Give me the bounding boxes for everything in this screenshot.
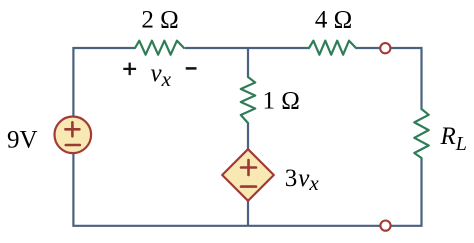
wire top-left corner: [73, 48, 135, 116]
wire 4ohm to terminal a: [356, 47, 380, 49]
label plus of vx: [123, 63, 136, 76]
wire bottom-right corner: [391, 158, 422, 226]
svg-text:4 Ω: 4 Ω: [315, 7, 352, 34]
dependent source 3vx diamond: [222, 149, 274, 201]
wire 1ohm to diamond: [247, 123, 249, 150]
wire top-middle segment: [185, 47, 309, 49]
svg-text:vx: vx: [151, 60, 172, 91]
voltage source VS 9V circle: [55, 117, 92, 154]
resistor R=2ohm zigzag: [135, 41, 184, 55]
voltage source plus sign: [65, 122, 79, 136]
wire middle upper: [247, 48, 249, 77]
dependent source minus sign: [241, 185, 256, 188]
svg-text:1 Ω: 1 Ω: [263, 88, 300, 115]
resistor R=4ohm zigzag: [309, 41, 356, 55]
resistor R=1ohm zigzag: [241, 77, 255, 123]
dependent source plus sign: [241, 160, 256, 175]
svg-text:3vx: 3vx: [285, 165, 320, 195]
wire diamond to bottom: [247, 201, 249, 226]
voltage source minus sign: [66, 144, 80, 147]
terminal a (open circle top): [380, 43, 390, 53]
svg-text:9V: 9V: [7, 127, 38, 154]
label minus of vx: [186, 67, 197, 70]
wire terminal a to top-right corner: [390, 48, 421, 109]
terminal b (open circle bottom): [380, 221, 390, 231]
resistor RL zigzag: [414, 109, 428, 158]
svg-text:2 Ω: 2 Ω: [141, 7, 178, 34]
wire bottom-left corner: [73, 153, 380, 226]
svg-text:RL: RL: [440, 123, 467, 155]
